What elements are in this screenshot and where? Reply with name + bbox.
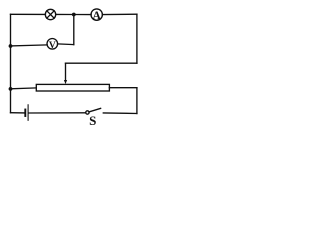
voltmeter V1 <box>47 39 58 50</box>
wire switch to battery <box>29 112 86 114</box>
wire to slider <box>66 62 137 64</box>
rheostat R1 (resistance box) <box>36 84 109 91</box>
wire rheostat right terminal <box>109 87 136 89</box>
wire voltmeter branch left <box>11 45 48 46</box>
wire node to ammeter <box>74 14 91 16</box>
wire ammeter to top-right corner <box>102 13 136 15</box>
wire lamp to node <box>56 13 74 15</box>
wire top-left horizontal <box>11 13 46 15</box>
lamp L1 <box>45 9 55 19</box>
wire voltmeter riser vertical <box>73 15 75 45</box>
wire to rheostat left terminal <box>11 87 37 90</box>
rheostat slider arrow <box>64 63 67 84</box>
switch S <box>86 108 101 114</box>
svg-text:S: S <box>89 113 96 128</box>
wire right vertical bottom <box>136 88 138 114</box>
wire voltmeter to riser <box>58 43 74 46</box>
node junction (voltmeter tap, dot) <box>72 13 76 17</box>
wire left vertical <box>10 14 12 112</box>
node voltmeter tap (dot) <box>9 44 13 48</box>
wire bottom right <box>103 112 137 115</box>
wire right vertical top <box>136 14 138 63</box>
svg-text:V: V <box>49 41 56 51</box>
node rheostat tap (dot) <box>9 87 13 91</box>
wire battery to left corner <box>11 112 25 114</box>
battery cell plates <box>25 105 28 121</box>
svg-text:A: A <box>93 10 102 22</box>
ammeter A1 <box>91 9 102 20</box>
